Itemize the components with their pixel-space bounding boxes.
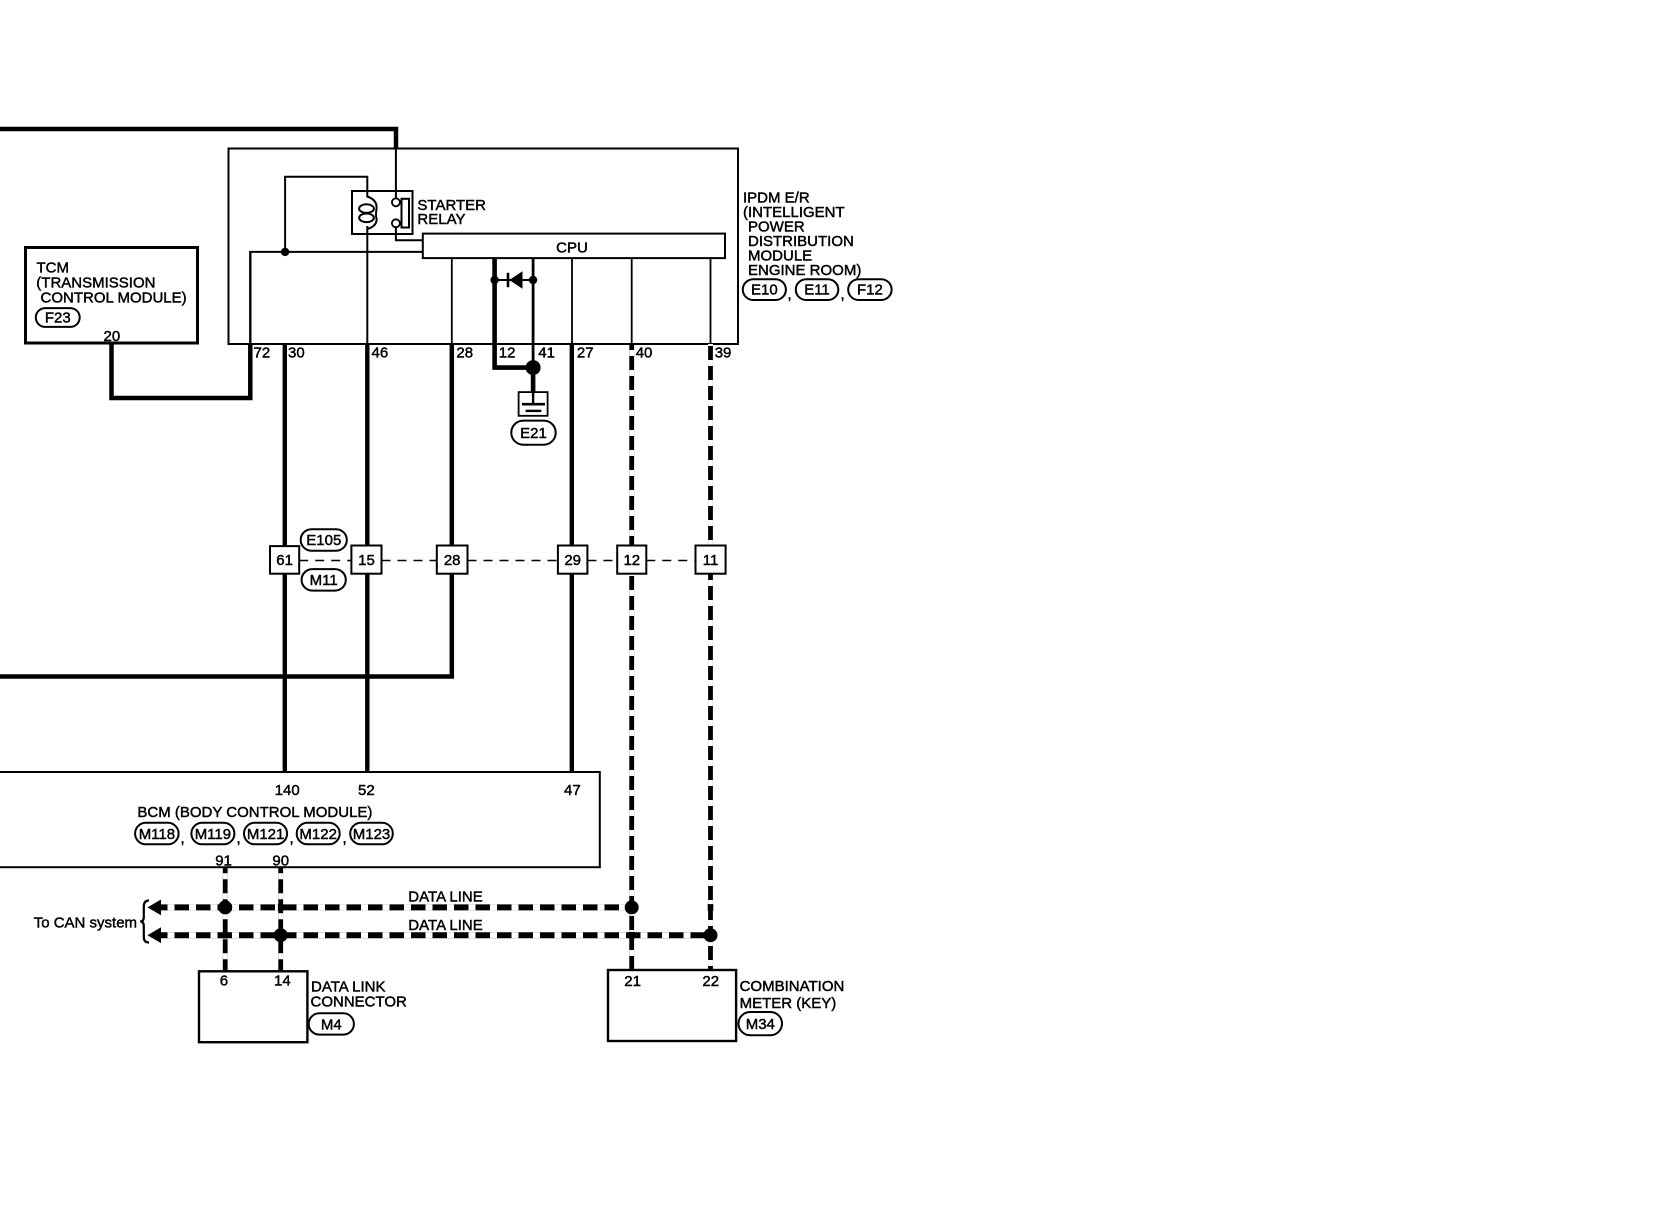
connector M118 oval [135, 823, 179, 845]
connector E21 oval [511, 421, 555, 445]
wire: relay switch output to CPU [396, 227, 423, 240]
svg-text:12: 12 [499, 345, 516, 362]
connector E11 oval [796, 279, 839, 300]
connector F23 oval [36, 308, 80, 327]
svg-text:METER (KEY): METER (KEY) [740, 995, 837, 1012]
svg-text:COMBINATION: COMBINATION [740, 978, 845, 995]
wire: pin 46 thick vertical to BCM 52 [365, 344, 369, 772]
wire crossing line1 x pin39 [708, 904, 714, 911]
wire: pin 30 thick vertical to BCM 140 [283, 344, 287, 772]
node dot diode anode side (pin 12 line) [490, 276, 498, 284]
wire: battery feed thick top-left [0, 129, 396, 149]
svg-text:61: 61 [276, 552, 293, 569]
wire: pin 28 thick vertical + horizontal to left [0, 344, 452, 677]
svg-text:M123: M123 [353, 826, 391, 843]
wire: ground drop [531, 368, 536, 393]
connector box 12 [617, 546, 646, 574]
svg-text:F23: F23 [45, 310, 71, 327]
connector M34 oval [739, 1012, 783, 1035]
svg-text:M4: M4 [321, 1016, 342, 1033]
svg-text:41: 41 [538, 345, 555, 362]
BCM box [0, 772, 600, 867]
svg-text:E21: E21 [520, 425, 547, 442]
wire: CAN dashed vertical BCM pin 91 to DLC pin 6 [223, 867, 228, 971]
svg-text:28: 28 [444, 552, 461, 569]
svg-text:To CAN system: To CAN system [34, 915, 137, 932]
svg-text:,: , [181, 830, 185, 847]
svg-text:DATA LINE: DATA LINE [408, 917, 482, 934]
ground E21 symbol [519, 392, 548, 416]
wire: CAN data line 1 (to CAN system) [148, 900, 632, 916]
svg-text:29: 29 [564, 552, 581, 569]
svg-text:CONTROL MODULE): CONTROL MODULE) [41, 290, 187, 307]
diode D1 branch: pin 12 thick wire [495, 258, 531, 368]
connector E10 oval [743, 279, 786, 300]
svg-text:140: 140 [275, 782, 300, 799]
wire: pin 39 thin inside box [710, 258, 712, 344]
wire: CAN dashed vertical IPDM pin 39 to meter pin 22 [708, 344, 713, 970]
wire: relay contact feed from top [395, 149, 397, 200]
svg-text:M11: M11 [310, 572, 338, 589]
connector box 15 (M11 side) [351, 546, 381, 574]
wire: pin 27 thick vertical to BCM 47 [570, 344, 574, 772]
IPDM E/R box [229, 149, 739, 345]
svg-text:,: , [237, 830, 241, 847]
connector M11 oval [302, 569, 346, 591]
svg-text:M121: M121 [247, 826, 285, 843]
relay contact circle bottom [392, 219, 400, 227]
svg-text:11: 11 [703, 552, 719, 569]
connector M123 oval [350, 823, 393, 845]
svg-text:,: , [343, 830, 347, 847]
starter relay S1 box [352, 191, 413, 234]
connector box 61 (E105 side) [270, 546, 299, 574]
svg-text:M118: M118 [139, 826, 175, 843]
svg-text:,: , [290, 830, 294, 847]
DLC box M4 [199, 971, 307, 1042]
connector M122 oval [297, 823, 340, 845]
svg-text:RELAY: RELAY [417, 211, 465, 228]
svg-text:90: 90 [272, 853, 289, 870]
svg-text:DATA LINE: DATA LINE [408, 888, 482, 905]
svg-text:22: 22 [702, 973, 719, 990]
svg-text:ENGINE ROOM): ENGINE ROOM) [748, 262, 861, 279]
wire: coil bottom lead down to pin 46 [366, 226, 368, 344]
wire: junction up to relay coil [285, 177, 367, 252]
relay switch bar [402, 199, 410, 228]
relay coil [367, 191, 376, 229]
wire: pin72 vertical inside box [249, 251, 251, 344]
svg-text:CONNECTOR: CONNECTOR [311, 994, 408, 1011]
node dot diode cathode side (pin 41 line) [529, 276, 537, 284]
svg-text:39: 39 [715, 345, 732, 362]
brace [140, 901, 149, 943]
connector M121 oval [244, 823, 287, 845]
connector F12 oval [848, 279, 891, 300]
node dot: line1 x 91 [218, 900, 232, 914]
wire crossing line1 x pin90 [278, 904, 284, 911]
wire: pin72 to CPU horizontal [250, 251, 422, 253]
svg-text:20: 20 [104, 328, 121, 345]
svg-text:E105: E105 [306, 532, 341, 549]
connector row dashed link line [299, 560, 695, 562]
svg-text:M34: M34 [746, 1016, 775, 1033]
svg-text:52: 52 [358, 782, 375, 799]
svg-text:E10: E10 [751, 282, 778, 299]
svg-text:28: 28 [456, 345, 473, 362]
wire: CAN dashed vertical IPDM pin 40 to meter pin 21 [629, 344, 634, 970]
CPU box U1 [423, 234, 725, 259]
wire crossing line2 x pin91 [222, 932, 228, 939]
connector M119 oval [191, 823, 234, 845]
svg-text:E11: E11 [804, 282, 830, 299]
node dot: line2 x 90 [274, 928, 288, 942]
Combination meter box M34 [608, 970, 736, 1041]
svg-text:6: 6 [220, 973, 228, 990]
svg-text:M119: M119 [195, 826, 231, 843]
connector E105 oval [301, 529, 347, 551]
wire: CAN data line 2 (to CAN system) [148, 927, 711, 943]
svg-text:CPU: CPU [556, 240, 588, 257]
svg-text:21: 21 [624, 973, 641, 990]
node junction on CPU wire [281, 248, 289, 256]
svg-text:,: , [841, 286, 845, 303]
diode D1 horizontal wire [495, 279, 533, 281]
connector M4 oval [309, 1013, 354, 1034]
svg-text:72: 72 [254, 345, 271, 362]
node dot: line2 x 39 [704, 928, 718, 942]
svg-text:F12: F12 [857, 282, 883, 299]
svg-text:,: , [788, 286, 792, 303]
svg-text:47: 47 [564, 782, 581, 799]
svg-text:14: 14 [274, 973, 291, 990]
svg-text:M122: M122 [299, 826, 337, 843]
wire: pin 41 line [532, 258, 535, 368]
wire crossing line2 x pin40 [629, 932, 635, 939]
connector box 29 [558, 546, 588, 574]
wire: TCM pin20 to IPDM pin72 [112, 343, 251, 398]
connector box 11 [696, 546, 726, 574]
diode D1 symbol [507, 273, 510, 287]
svg-text:40: 40 [636, 345, 653, 362]
node dot: line1 x 40 [625, 900, 639, 914]
connector box 28 [437, 546, 468, 574]
wire: pin 27 thin inside box [571, 258, 573, 344]
wire: pin 40 thin inside box [631, 258, 633, 344]
TCM box [26, 248, 198, 344]
svg-text:BCM (BODY CONTROL MODULE): BCM (BODY CONTROL MODULE) [137, 804, 372, 821]
svg-text:91: 91 [215, 853, 232, 870]
svg-text:30: 30 [288, 345, 305, 362]
svg-text:12: 12 [623, 552, 640, 569]
svg-text:15: 15 [358, 552, 375, 569]
node: big junction dot pins 12/41 [526, 360, 541, 375]
relay contact circle top [392, 198, 400, 206]
wire: CAN dashed vertical BCM pin 90 to DLC pin 14 [278, 867, 283, 971]
wire: pin 28 thin inside box [451, 258, 453, 344]
svg-text:27: 27 [577, 345, 594, 362]
svg-text:46: 46 [372, 345, 389, 362]
